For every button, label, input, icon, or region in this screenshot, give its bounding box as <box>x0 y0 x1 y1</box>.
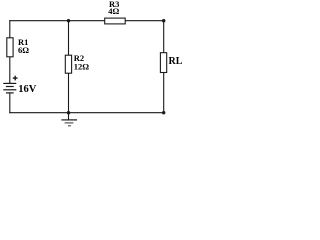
svg-text:12Ω: 12Ω <box>74 61 90 71</box>
svg-text:RL: RL <box>169 56 183 67</box>
svg-text:16V: 16V <box>18 84 37 95</box>
svg-text:4Ω: 4Ω <box>108 6 119 16</box>
svg-text:6Ω: 6Ω <box>18 45 29 55</box>
